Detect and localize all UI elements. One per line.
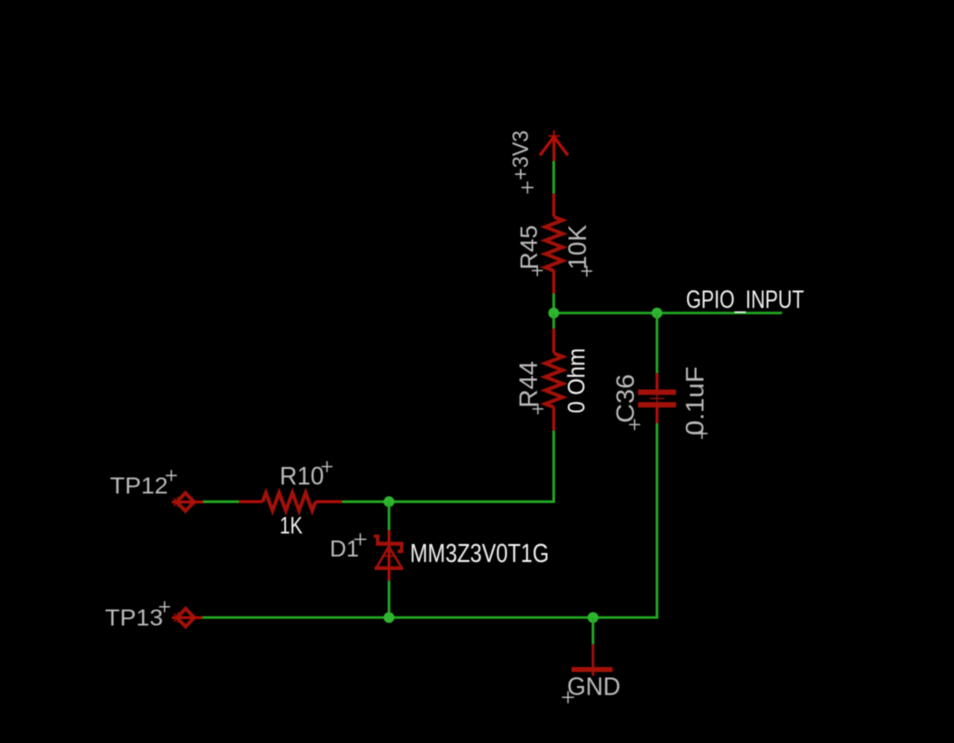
wire node to R44	[552, 313, 555, 329]
svg-text:0.1uF: 0.1uF	[682, 366, 710, 435]
resistor R44	[552, 329, 555, 431]
zener diode D1	[388, 530, 391, 581]
wire GND stub	[592, 618, 595, 645]
node junction D1 bottom	[384, 612, 395, 623]
svg-text:GND: GND	[567, 673, 620, 701]
wire R45 to node	[552, 294, 555, 314]
wire GPIO row	[554, 312, 782, 315]
node junction R45/R44	[548, 308, 559, 319]
ground	[572, 644, 613, 676]
wire +3V3 to R45	[552, 161, 555, 194]
svg-text:GPIO_INPUT: GPIO_INPUT	[686, 286, 804, 314]
wire C36 bottom to bottom row	[593, 423, 657, 617]
svg-text:TP13: TP13	[105, 604, 163, 630]
resistor R45	[552, 194, 555, 294]
svg-text:R44: R44	[515, 361, 543, 408]
wire D1 to bottom row	[388, 581, 391, 618]
capacitor C36 wire top	[656, 313, 659, 373]
capacitor C36	[656, 373, 659, 423]
power +3V3	[540, 130, 568, 161]
svg-text:0 Ohm: 0 Ohm	[564, 348, 591, 413]
svg-text:1K: 1K	[280, 513, 303, 540]
wire R44 to middle row corner	[389, 431, 554, 502]
svg-text:+3V3: +3V3	[508, 130, 533, 180]
node junction R10/D1	[384, 496, 395, 507]
svg-text:TP12: TP12	[110, 473, 168, 499]
svg-text:MM3Z3V0T1G: MM3Z3V0T1G	[410, 538, 549, 568]
svg-text:10K: 10K	[564, 224, 592, 269]
wire bottom row	[202, 616, 593, 619]
node junction C36 top	[652, 308, 663, 319]
test point TP12	[177, 493, 194, 511]
resistor R10	[239, 500, 342, 503]
svg-text:R45: R45	[516, 225, 543, 269]
wire node to D1	[388, 502, 391, 530]
svg-text:C36: C36	[612, 374, 640, 423]
test point TP13	[177, 609, 194, 627]
wire R10 to middle node	[342, 500, 389, 503]
node junction GND	[588, 612, 599, 623]
wire TP12 to R10	[203, 500, 239, 503]
svg-text:R10: R10	[280, 463, 324, 491]
